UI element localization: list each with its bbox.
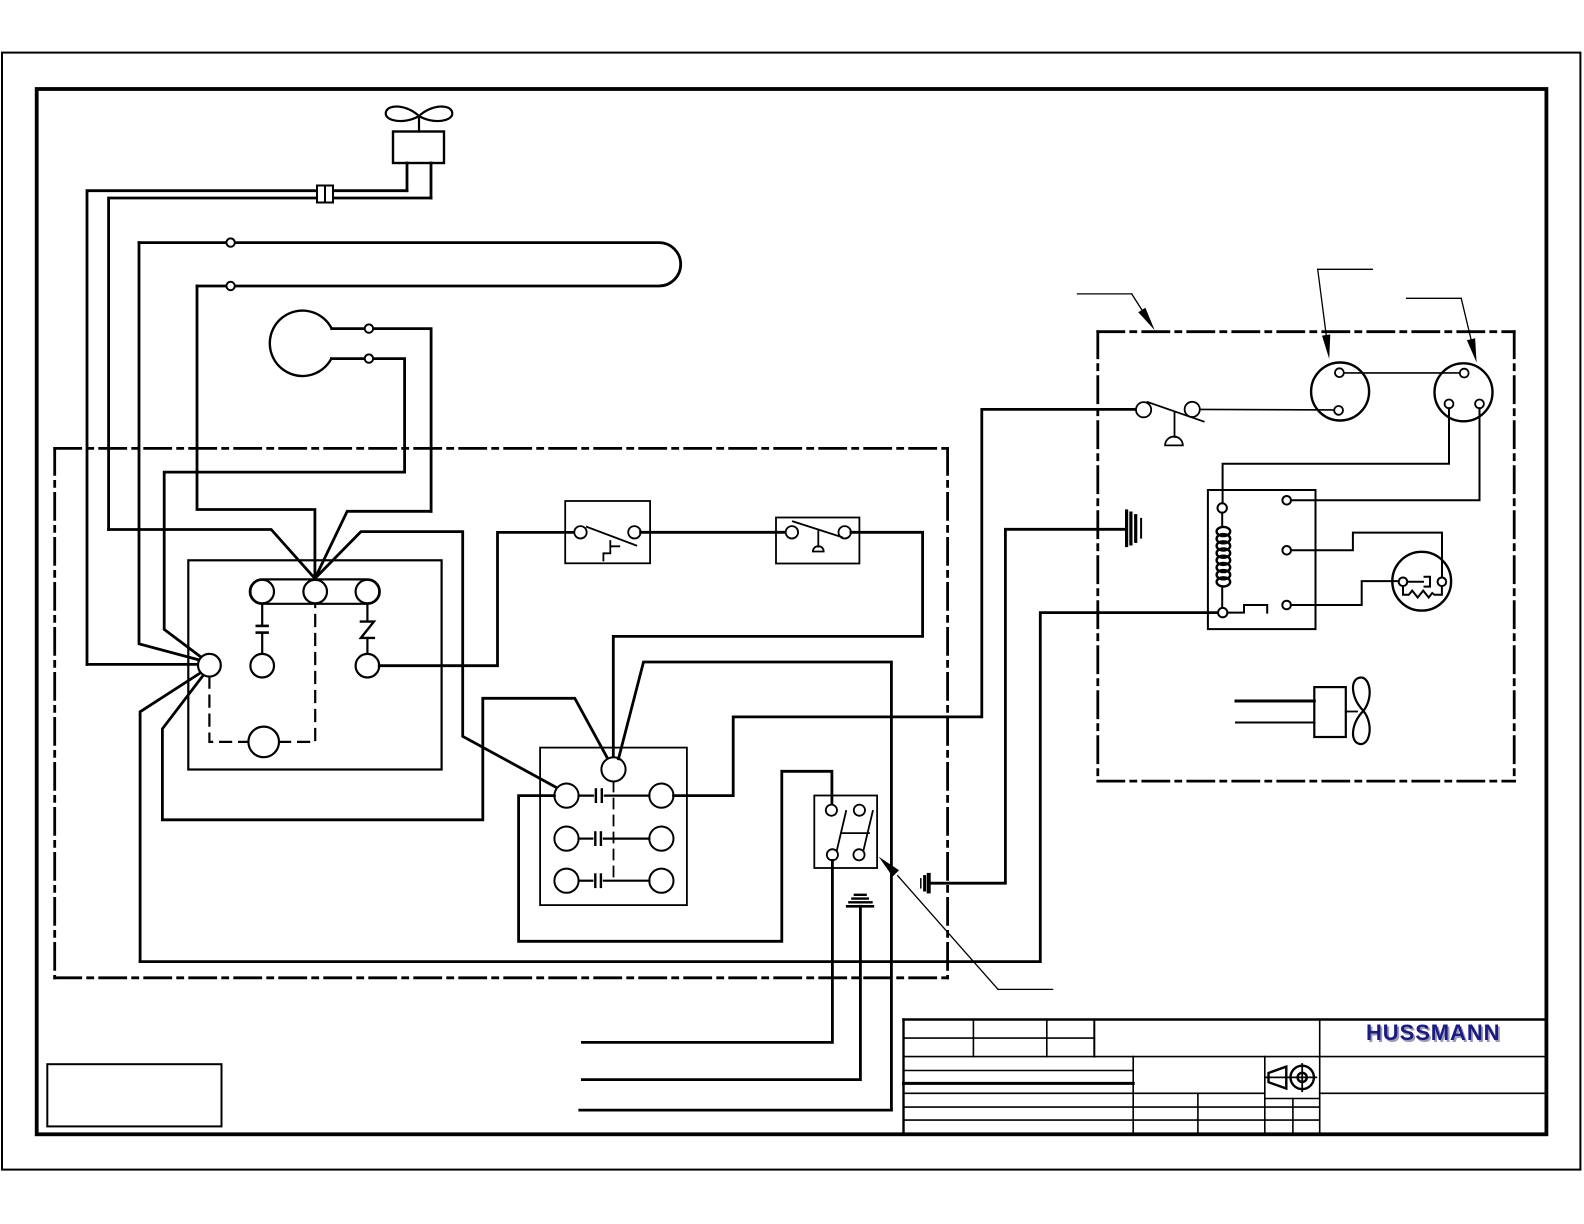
node on heater top <box>226 238 234 246</box>
evaporator fan motor box <box>393 132 444 164</box>
contactor coil bottom terminal <box>1218 608 1227 617</box>
leader arrow 1 (section) <box>1078 293 1132 295</box>
harness connector evap side <box>920 879 922 888</box>
leader arrow to relay <box>898 876 1053 990</box>
compressor lower-left terminal <box>250 654 274 678</box>
internal overload dashed path <box>209 604 315 742</box>
wire heater top to common node <box>139 243 199 660</box>
relay blades <box>837 811 846 850</box>
contactor coil <box>1217 527 1231 587</box>
leader arrow 3 (fan motor 2) <box>1407 297 1462 299</box>
timer contact row 3 <box>554 869 578 893</box>
wire condenser fan stub 1 <box>1236 700 1314 703</box>
fixture thermostat box <box>776 518 859 564</box>
wire supply stub 3 tail <box>580 1109 892 1112</box>
timer internal dashed cam line <box>613 782 615 881</box>
timer contact row 2 <box>554 827 578 851</box>
wire timer row1-left to fan relay <box>519 771 832 941</box>
connector splice on fan leads <box>317 186 333 203</box>
wire motor2 to contactor coil branch <box>1223 408 1449 503</box>
timer contact row 1 <box>554 784 578 808</box>
switch terminal <box>574 526 586 538</box>
switch blade <box>587 527 637 546</box>
compressor terminal S <box>250 580 274 604</box>
wire motor2 to contactor contact <box>1291 408 1480 500</box>
harness connector condensing side <box>1125 511 1128 546</box>
wire condenser fan stub 2 <box>1236 722 1314 724</box>
defrost timer box <box>540 748 687 906</box>
defrost thermostat actuator <box>1174 413 1176 437</box>
contactor coil top terminal <box>1218 503 1227 512</box>
wire contactor bottom to heater <box>1291 581 1399 605</box>
compressor terminal stadium <box>250 579 380 603</box>
condenser fan shaft <box>1346 711 1357 713</box>
evaporator fan shaft <box>418 117 420 132</box>
wire bulb bottom lead <box>331 359 404 473</box>
thermostat sensing bulb <box>270 311 332 376</box>
wire relay to supply stub 1 <box>582 860 832 1042</box>
wire compressor C to switch chain <box>315 532 558 789</box>
node bulb bottom lead <box>365 354 373 362</box>
wire thermostat to fan motor <box>1200 408 1334 411</box>
wire heater bottom to compressor C terminal <box>197 286 315 579</box>
evaporator fan relay box <box>814 796 877 869</box>
node on heater bottom <box>226 282 234 290</box>
start capacitor leg <box>261 604 263 625</box>
common junction node <box>198 654 221 677</box>
wire contactor middle to heater <box>1291 533 1442 578</box>
relay terminal top-left <box>826 805 837 816</box>
third angle projection symbol <box>1265 1064 1316 1091</box>
wire fan motor lead 1 <box>406 163 409 191</box>
wire timer terminal to ground bus <box>619 662 892 1110</box>
wire between motors <box>1344 372 1460 374</box>
revision block rectangle <box>47 1064 221 1126</box>
crankcase heater thermostat <box>1392 552 1451 611</box>
wire connector link <box>931 529 1125 883</box>
evaporator section dash-dot enclosure <box>55 448 948 977</box>
contactor armature bump <box>1227 605 1267 613</box>
condenser fan motor 2 <box>1435 363 1493 421</box>
wire fan feed bottom to compressor C <box>109 530 315 579</box>
wire bulb bottom lead to common node <box>164 472 404 657</box>
wire thermostat to timer feed <box>613 532 922 757</box>
thermal protector Z leg <box>366 604 368 621</box>
wire fan feed bottom <box>109 198 431 530</box>
relay terminal bottom-right <box>853 849 864 860</box>
wire lower bus to contactor coil <box>140 613 1218 962</box>
compressor terminal box <box>188 560 441 769</box>
wire timer row1-right to defrost thermostat <box>674 409 1135 795</box>
defrost thermostat blade <box>1147 402 1203 422</box>
overload protector <box>248 727 279 758</box>
wire common node to lower bus <box>140 673 201 962</box>
wire fan feed top <box>87 191 407 665</box>
wire ground stem to supply stub 2 <box>582 906 860 1079</box>
title block <box>904 1020 1547 1135</box>
wire common node horizontal <box>87 663 198 666</box>
timer motor terminal <box>601 757 625 781</box>
condensing section dash-dot enclosure <box>1098 332 1515 781</box>
evaporator fan propeller <box>386 106 453 121</box>
compressor terminal C <box>303 580 327 604</box>
wire fan motor lead 2 <box>430 163 433 198</box>
condenser fan propeller <box>1353 678 1370 745</box>
ground symbol <box>855 894 866 896</box>
contactor box <box>1208 490 1316 629</box>
switch terminal <box>628 526 640 538</box>
defrost thermostat terminal 2 <box>1185 402 1200 417</box>
contactor contact terminal middle <box>1282 546 1291 555</box>
switch bimetal element <box>603 541 619 561</box>
compressor lower-right terminal <box>356 654 380 678</box>
leader arrow 2 (fan motor) <box>1318 268 1373 270</box>
wire R terminal to defrost switch <box>379 532 574 665</box>
defrost thermostat (condensing) terminal <box>1136 402 1151 417</box>
wire bulb top lead to compressor C <box>315 511 431 578</box>
thermostat actuator <box>817 530 819 547</box>
wire common node to timer loop <box>162 675 609 820</box>
defrost heater hairpin element <box>139 243 681 286</box>
relay terminal bottom-left <box>827 849 838 860</box>
thermostat terminal <box>839 526 851 538</box>
svg-text:HUSSMANN: HUSSMANN <box>1366 1020 1500 1045</box>
compressor terminal R <box>356 580 380 604</box>
wire bulb top lead <box>332 329 431 512</box>
condenser fan box <box>1314 687 1346 737</box>
condenser fan motor 1 <box>1311 363 1369 421</box>
thermostat terminal <box>786 526 798 538</box>
contactor contact terminal bottom <box>1282 601 1291 610</box>
thermostat blade <box>793 521 842 537</box>
contactor contact terminal top <box>1282 496 1291 505</box>
relay terminal top-right <box>854 805 865 816</box>
node bulb top lead <box>365 324 373 332</box>
wire between switches <box>641 531 786 534</box>
defrost termination switch box <box>565 501 650 563</box>
